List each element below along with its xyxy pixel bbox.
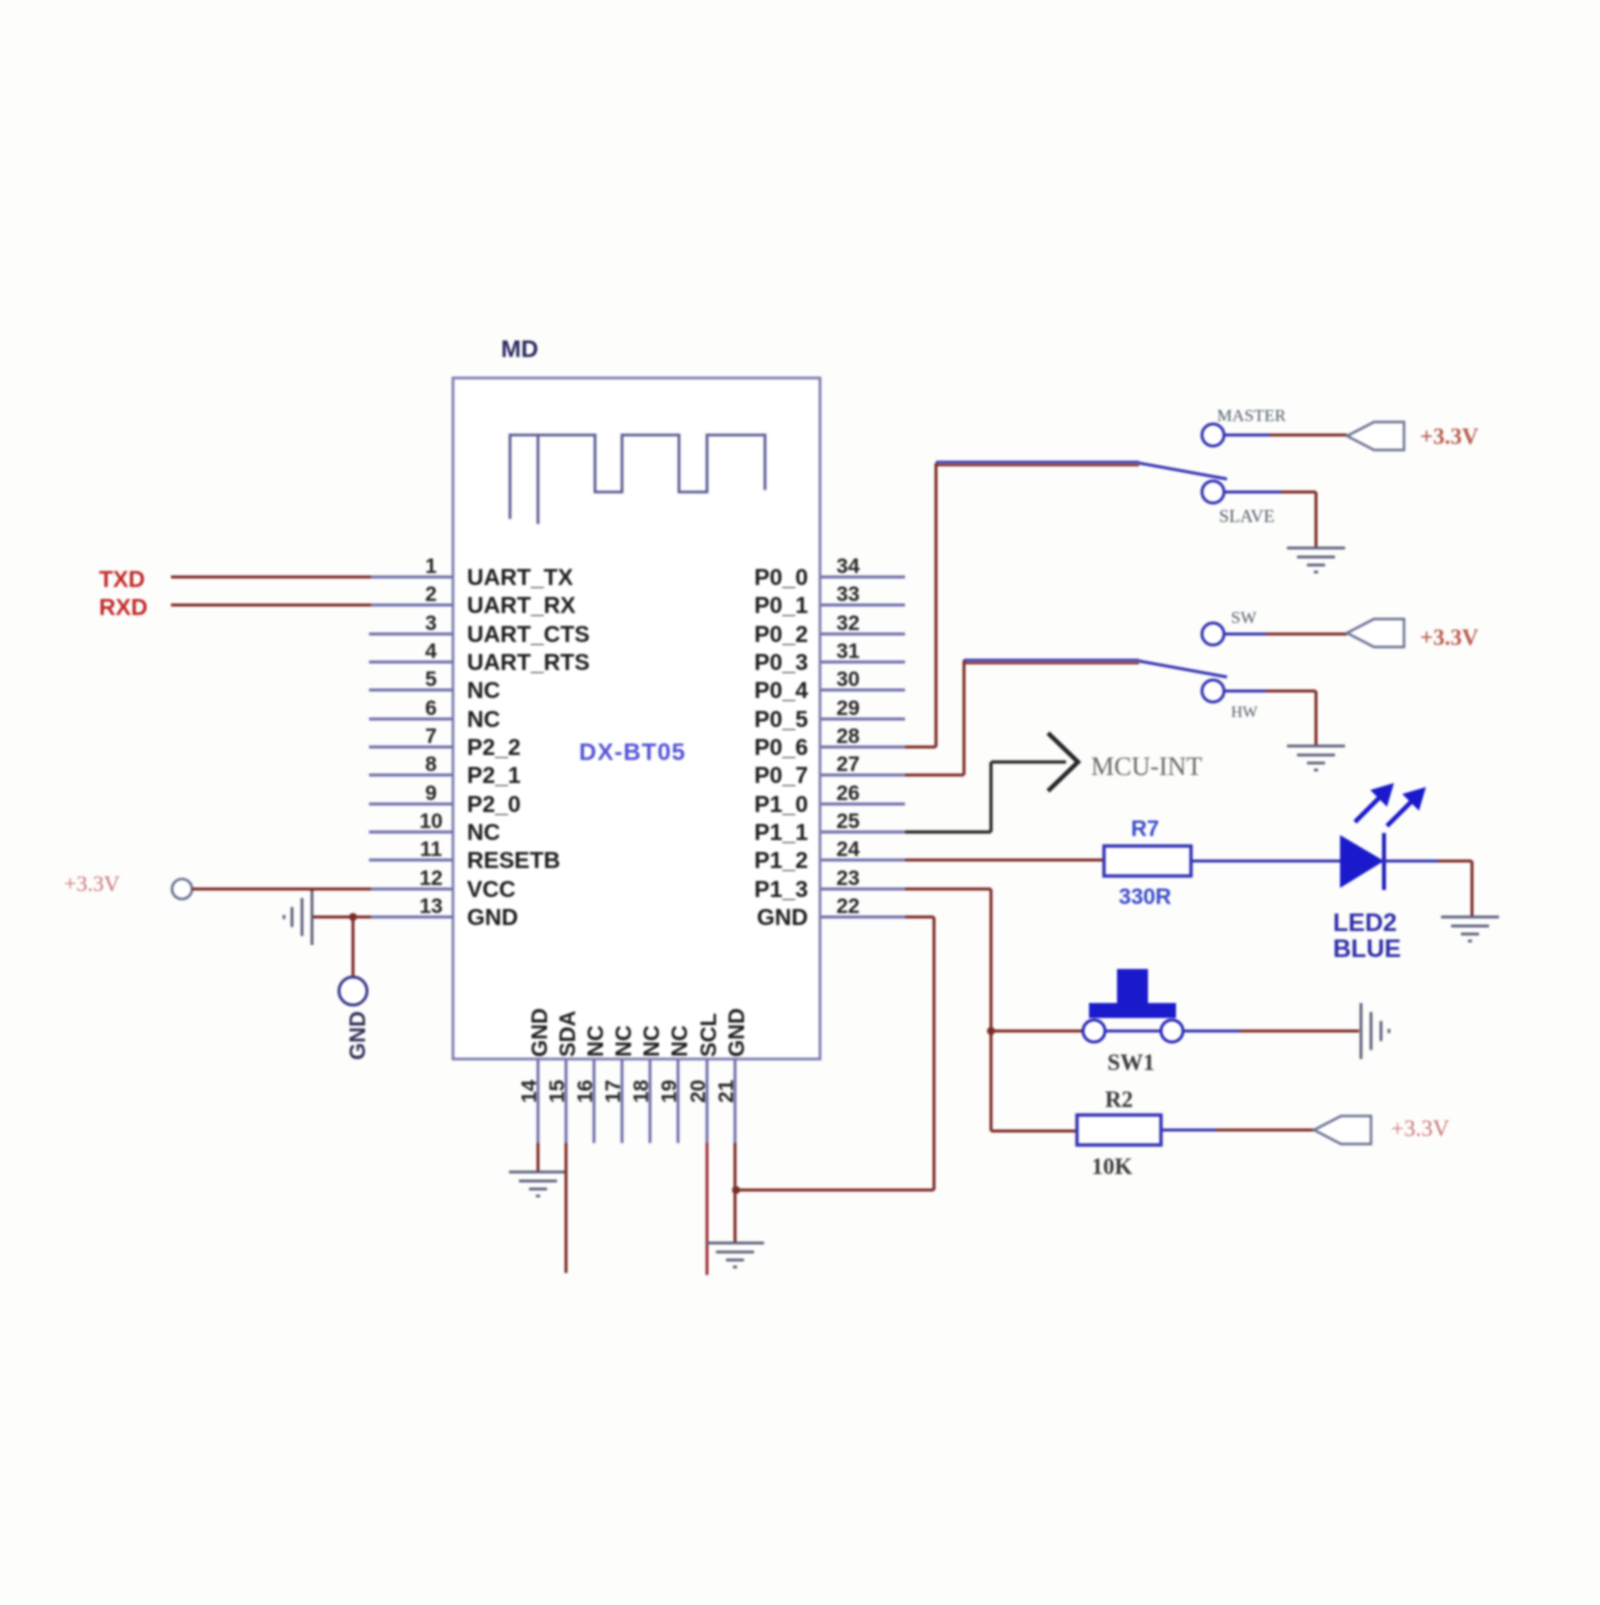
svg-text:P1_3: P1_3 [754, 876, 808, 902]
svg-text:21: 21 [715, 1079, 738, 1103]
svg-text:24: 24 [836, 838, 860, 861]
svg-text:UART_TX: UART_TX [467, 564, 574, 590]
svg-text:P0_3: P0_3 [754, 649, 808, 675]
svg-text:MASTER: MASTER [1217, 406, 1287, 425]
svg-text:9: 9 [425, 782, 437, 805]
svg-text:SW1: SW1 [1107, 1050, 1154, 1075]
svg-text:GND: GND [757, 904, 808, 930]
svg-text:14: 14 [518, 1079, 541, 1103]
svg-text:P0_6: P0_6 [754, 734, 808, 760]
svg-text:TXD: TXD [99, 566, 145, 592]
svg-text:LED2: LED2 [1333, 909, 1397, 937]
svg-text:P1_0: P1_0 [754, 791, 808, 817]
svg-text:P2_0: P2_0 [467, 791, 521, 817]
svg-text:RESETB: RESETB [467, 847, 560, 873]
svg-text:NC: NC [611, 1025, 636, 1057]
svg-text:NC: NC [583, 1025, 608, 1057]
svg-text:18: 18 [630, 1079, 653, 1103]
svg-text:22: 22 [836, 895, 859, 918]
svg-text:MCU-INT: MCU-INT [1091, 752, 1202, 781]
svg-text:P0_5: P0_5 [754, 706, 808, 732]
svg-text:BLUE: BLUE [1333, 935, 1401, 963]
svg-text:P0_4: P0_4 [754, 677, 808, 703]
svg-text:15: 15 [546, 1079, 569, 1103]
svg-text:SW: SW [1231, 608, 1257, 627]
svg-text:DX-BT05: DX-BT05 [579, 739, 686, 766]
svg-text:17: 17 [602, 1080, 625, 1103]
svg-text:16: 16 [574, 1080, 597, 1103]
svg-text:NC: NC [639, 1025, 664, 1057]
svg-text:MD: MD [501, 336, 538, 363]
svg-text:R2: R2 [1105, 1087, 1133, 1112]
svg-text:4: 4 [425, 640, 437, 663]
svg-text:7: 7 [425, 725, 437, 748]
svg-text:33: 33 [836, 583, 859, 606]
svg-text:12: 12 [419, 867, 442, 890]
svg-text:UART_RTS: UART_RTS [467, 649, 590, 675]
svg-text:10K: 10K [1092, 1154, 1133, 1179]
svg-text:NC: NC [467, 706, 500, 732]
svg-text:11: 11 [420, 838, 443, 861]
svg-text:3: 3 [425, 612, 437, 635]
svg-text:SDA: SDA [555, 1010, 580, 1057]
svg-text:SLAVE: SLAVE [1219, 506, 1275, 526]
svg-text:P0_2: P0_2 [754, 621, 808, 647]
svg-text:GND: GND [345, 1011, 370, 1060]
svg-text:P0_1: P0_1 [754, 592, 808, 618]
svg-text:UART_CTS: UART_CTS [467, 621, 590, 647]
svg-text:R7: R7 [1131, 816, 1159, 841]
svg-text:GND: GND [527, 1008, 552, 1057]
svg-text:5: 5 [425, 668, 437, 691]
svg-text:1: 1 [425, 555, 437, 578]
svg-text:GND: GND [724, 1008, 749, 1057]
svg-text:330R: 330R [1119, 884, 1172, 909]
svg-text:32: 32 [836, 612, 859, 635]
svg-text:RXD: RXD [99, 594, 148, 620]
svg-text:20: 20 [687, 1080, 710, 1103]
svg-text:UART_RX: UART_RX [467, 592, 576, 618]
svg-text:P2_1: P2_1 [467, 762, 521, 788]
svg-text:P0_7: P0_7 [754, 762, 808, 788]
svg-text:P0_0: P0_0 [754, 564, 808, 590]
svg-text:28: 28 [836, 725, 860, 748]
svg-text:NC: NC [667, 1025, 692, 1057]
svg-text:34: 34 [836, 555, 860, 578]
svg-text:26: 26 [836, 782, 859, 805]
svg-text:+3.3V: +3.3V [1420, 424, 1479, 449]
svg-text:19: 19 [658, 1080, 681, 1103]
svg-text:25: 25 [836, 810, 860, 833]
svg-text:8: 8 [425, 753, 437, 776]
svg-text:HW: HW [1231, 704, 1259, 721]
svg-text:29: 29 [836, 697, 859, 720]
svg-text:GND: GND [467, 904, 518, 930]
svg-text:10: 10 [419, 810, 442, 833]
svg-text:P2_2: P2_2 [467, 734, 521, 760]
svg-text:2: 2 [425, 583, 437, 606]
svg-text:SCL: SCL [696, 1013, 721, 1057]
svg-text:NC: NC [467, 677, 500, 703]
svg-text:NC: NC [467, 819, 500, 845]
svg-text:30: 30 [836, 668, 859, 691]
svg-text:P1_1: P1_1 [754, 819, 808, 845]
svg-text:+3.3V: +3.3V [64, 871, 120, 896]
svg-text:+3.3V: +3.3V [1391, 1116, 1450, 1141]
svg-text:13: 13 [419, 895, 442, 918]
svg-text:23: 23 [836, 867, 859, 890]
svg-text:27: 27 [836, 753, 859, 776]
svg-text:VCC: VCC [467, 876, 516, 902]
svg-text:+3.3V: +3.3V [1420, 625, 1479, 650]
svg-text:31: 31 [836, 640, 860, 663]
svg-text:P1_2: P1_2 [754, 847, 808, 873]
svg-text:6: 6 [425, 697, 437, 720]
